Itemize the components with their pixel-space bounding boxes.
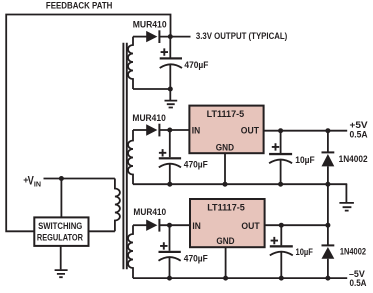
svg-text:10µF: 10µF — [296, 247, 314, 257]
svg-text:470µF: 470µF — [184, 160, 208, 170]
svg-text:SWITCHING: SWITCHING — [38, 221, 82, 231]
svg-text:MUR410: MUR410 — [132, 113, 165, 123]
svg-text:LT1117-5: LT1117-5 — [207, 202, 245, 213]
svg-text:470µF: 470µF — [184, 60, 208, 70]
svg-text:1N4002: 1N4002 — [340, 247, 366, 257]
svg-text:IN: IN — [192, 126, 201, 137]
svg-text:10µF: 10µF — [295, 155, 315, 165]
svg-text:OUT: OUT — [241, 221, 259, 232]
svg-text:FEEDBACK PATH: FEEDBACK PATH — [46, 1, 113, 11]
svg-text:3.3V OUTPUT (TYPICAL): 3.3V OUTPUT (TYPICAL) — [196, 31, 287, 41]
svg-text:GND: GND — [216, 236, 234, 247]
svg-text:MUR410: MUR410 — [133, 207, 166, 217]
svg-text:OUT: OUT — [241, 126, 259, 137]
svg-text:REGULATOR: REGULATOR — [37, 233, 83, 243]
svg-text:0.5A: 0.5A — [350, 278, 367, 288]
svg-text:470µF: 470µF — [184, 253, 208, 263]
svg-text:MUR410: MUR410 — [133, 19, 167, 29]
svg-text:IN: IN — [34, 179, 41, 188]
svg-text:IN: IN — [192, 221, 201, 232]
svg-text:GND: GND — [216, 142, 234, 153]
svg-text:LT1117-5: LT1117-5 — [207, 108, 245, 119]
svg-text:1N4002: 1N4002 — [339, 154, 368, 164]
svg-text:+5V: +5V — [350, 120, 369, 130]
svg-text:0.5A: 0.5A — [350, 130, 368, 140]
